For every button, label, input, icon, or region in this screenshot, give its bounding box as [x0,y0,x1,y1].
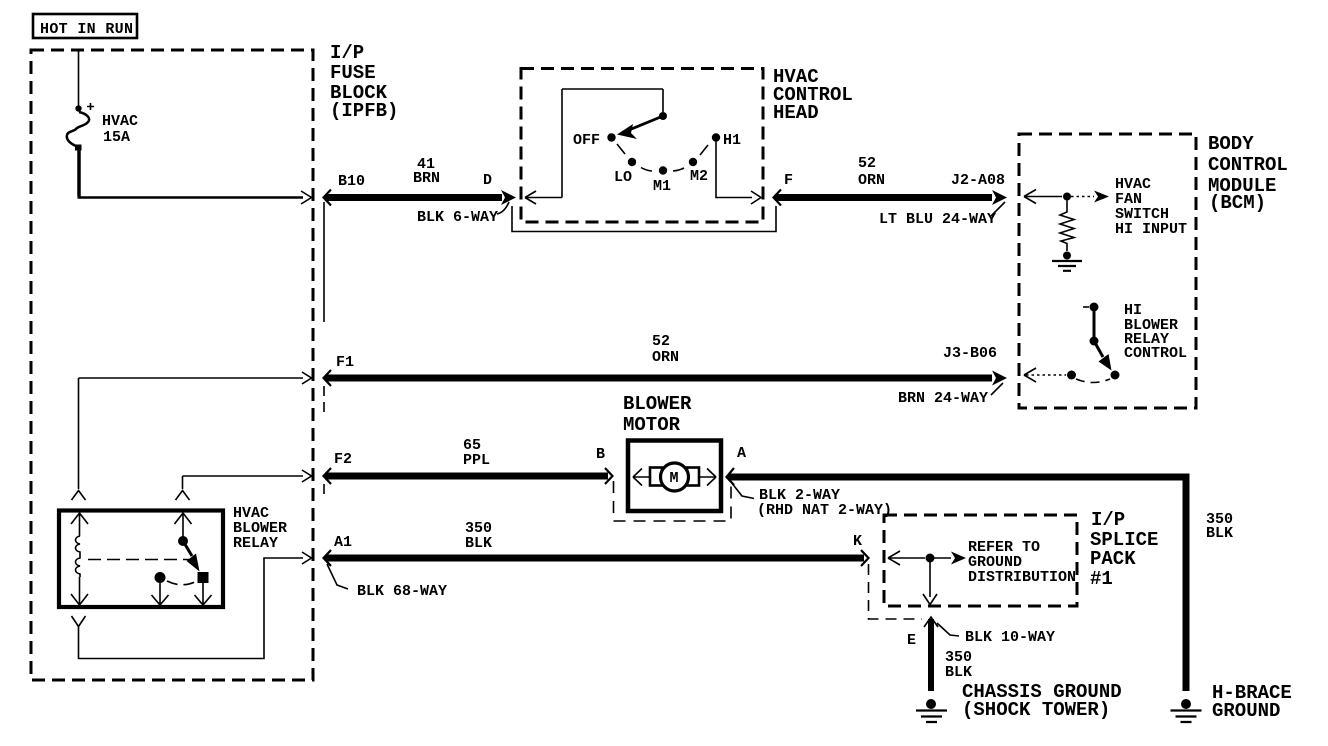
svg-text:MOTOR: MOTOR [623,414,681,436]
node M2 [689,158,697,166]
chevron above relay switch [176,491,190,501]
plus sign [87,103,94,110]
label 52 ORN [858,155,885,189]
control head internal wire from D [525,89,663,204]
HVAC control head dashed box [521,69,763,223]
10-way connector dashed loop [869,564,923,619]
node splice junction [926,554,935,563]
HOT IN RUN box [33,14,137,38]
svg-text:(IPFB): (IPFB) [330,100,398,122]
svg-text:RELAY: RELAY [233,535,278,552]
svg-text:52: 52 [858,155,876,172]
relay coil [76,536,81,577]
arrow into B10 [301,191,312,204]
label REFER TO GROUND DISTRIBUTION [968,539,1076,586]
wire E chassis ground 350 BLK [924,617,938,691]
svg-text:(RHD NAT 2-WAY): (RHD NAT 2-WAY) [757,502,892,519]
svg-text:A: A [737,445,746,462]
BCM fan switch input arrow left [1024,190,1062,204]
wire A1 to K 350 BLK [324,550,869,566]
svg-text:J2-A08: J2-A08 [951,172,1005,189]
node BCM switch contact [1111,371,1120,380]
I/P fuse block IPFB dashed box [31,50,313,680]
wire F2 to blower motor B 65 PPL [324,468,613,484]
fuse bottom blob [75,145,82,151]
label 65 PPL [463,437,490,469]
wire F2 terminal to relay switch inside IPFB [183,470,312,489]
svg-text:HOT IN RUN: HOT IN RUN [40,21,133,38]
svg-text:BLK: BLK [465,535,492,552]
svg-text:M2: M2 [690,168,708,185]
svg-text:F2: F2 [334,451,352,468]
relay coil top arrow [71,513,88,536]
wire from top border to fuse [78,50,80,106]
svg-text:BLK: BLK [1206,525,1233,542]
label 350 BLK bottom [945,649,972,681]
ground in BCM [1052,261,1082,271]
svg-text:HI INPUT: HI INPUT [1115,221,1187,238]
motor 2-way connector dashed loop [614,481,732,521]
wire fuse to B10 terminal [77,149,81,197]
chevron below relay coil [72,616,86,627]
motor brush right [687,468,699,486]
fuse HVAC 15A symbol [67,112,89,147]
svg-text:I/P: I/P [330,42,364,64]
chassis ground symbol [916,699,947,722]
node BCM switch pivot [1090,337,1099,346]
switch blade to OFF [629,116,663,130]
wire relay to A1 terminal [79,552,312,659]
body control module BCM dashed box [1019,134,1196,408]
label I/P FUSE BLOCK (IPFB) [330,42,398,122]
wire F1 to J3-B06 52 ORN [324,370,1008,386]
node LO [628,158,636,166]
label HVAC 15A [102,113,138,146]
svg-text:M: M [670,470,679,487]
svg-text:52: 52 [652,333,670,350]
svg-text:BLK: BLK [945,664,972,681]
H-brace ground symbol [1171,699,1202,722]
svg-text:H1: H1 [723,132,741,149]
dashed arcs between switch positions [617,144,625,154]
svg-text:HVAC: HVAC [102,113,138,130]
svg-text:BLK 68-WAY: BLK 68-WAY [357,583,447,600]
relay dashed arc [167,581,197,585]
node relay fixed contact [155,572,166,583]
label HVAC FAN SWITCH HI INPUT [1115,176,1187,238]
relay contact bottom arrows [152,583,212,605]
svg-text:LT BLU 24-WAY: LT BLU 24-WAY [879,211,996,228]
label HI BLOWER RELAY CONTROL [1124,302,1187,362]
BCM switch blade arrow [1094,341,1103,357]
connector loop below control head D to F [512,206,776,232]
label HVAC BLOWER RELAY [233,505,287,552]
svg-text:PACK: PACK [1090,548,1136,570]
node relay moving contact [198,572,209,583]
svg-text:LO: LO [614,169,632,186]
label I/P SPLICE PACK #1 [1090,509,1158,590]
wire F to J2-A08 52 ORN [774,190,1008,206]
splice down arrow [923,562,937,605]
label BLK 68-WAY with leader [327,564,447,600]
svg-text:BRN: BRN [413,170,440,187]
relay coil bottom arrow [71,577,88,605]
svg-text:FUSE: FUSE [330,62,376,84]
label BLOWER MOTOR [623,393,692,436]
svg-text:B10: B10 [338,173,365,190]
node BCM input junction [1063,193,1071,201]
svg-text:CONTROL: CONTROL [1124,345,1187,362]
relay switch top arrow [175,513,192,537]
svg-text:A1: A1 [334,534,352,551]
svg-text:DISTRIBUTION: DISTRIBUTION [968,569,1076,586]
label BRN 24-WAY with leader [898,383,1003,407]
svg-text:15A: 15A [103,129,130,146]
svg-text:(SHOCK TOWER): (SHOCK TOWER) [962,699,1110,721]
svg-text:PPL: PPL [463,452,490,469]
svg-text:ORN: ORN [858,172,885,189]
chevron above relay coil [72,491,86,501]
svg-text:CONTROL: CONTROL [1208,154,1288,176]
svg-text:OFF: OFF [573,132,600,149]
arrow to HVAC FAN SWITCH HI INPUT label [1071,191,1109,203]
svg-text:M1: M1 [653,178,671,195]
svg-text:I/P: I/P [1091,509,1125,531]
label BLK 2-WAY (RHD NAT 2-WAY) with leader [731,482,892,519]
wire B10-D 41 BRN [324,190,517,206]
node OFF [607,133,615,141]
node H1 [712,133,720,141]
label BLK 10-WAY with leader [937,623,1055,646]
svg-text:ORN: ORN [652,349,679,366]
node fuse top dot [75,105,81,111]
svg-text:J3-B06: J3-B06 [943,345,997,362]
svg-text:F1: F1 [336,354,354,371]
label HVAC CONTROL HEAD [773,66,853,124]
svg-text:(BCM): (BCM) [1209,192,1266,214]
label 52 ORN row2 [652,333,679,366]
svg-text:BRN 24-WAY: BRN 24-WAY [898,390,988,407]
blower motor box [628,441,721,512]
svg-text:K: K [853,533,862,550]
node relay pivot [178,536,188,546]
label 350 BLK [465,520,492,552]
node switch pivot [659,112,667,120]
motor internal arrows and line [633,469,716,486]
node BCM fixed contact [1067,371,1076,380]
svg-text:HEAD: HEAD [773,102,819,124]
wire F1 terminal to relay coil inside IPFB [79,372,312,489]
dashed arc BCM switch [1076,379,1110,383]
hvac blower relay box [59,511,223,608]
svg-text:BODY: BODY [1208,133,1254,155]
arrow to REFER TO GROUND DISTRIBUTION [934,552,966,565]
BCM switch vertical [1093,307,1096,341]
label 350 BLK right [1206,511,1233,542]
svg-text:BLOWER: BLOWER [623,393,692,415]
svg-text:E: E [907,632,916,649]
I/P splice pack dashed box [884,515,1077,606]
svg-text:BLK 10-WAY: BLK 10-WAY [965,629,1055,646]
node M1 [659,166,667,174]
svg-text:D: D [483,172,492,189]
label BLK 6-WAY with leader [417,202,509,226]
wire A to H-brace ground 350 BLK [727,468,1187,691]
connector line below B10 [323,202,325,322]
label H-BRACE GROUND [1212,682,1292,722]
relay dashed link [88,559,190,561]
label BODY CONTROL MODULE (BCM) [1208,133,1288,214]
BCM hi blower relay control top node [1090,303,1099,312]
resistor in BCM [1060,201,1074,252]
motor circle M [661,463,689,491]
svg-text:F: F [784,172,793,189]
label 41 BRN [413,156,440,187]
svg-text:B: B [596,446,605,463]
label CHASSIS GROUND (SHOCK TOWER) [962,681,1122,721]
relay blade arrow [183,541,192,556]
wire H1 to F terminal [716,141,761,204]
svg-text:BLK 6-WAY: BLK 6-WAY [417,209,498,226]
svg-text:GROUND: GROUND [1212,700,1280,722]
node resistor bottom dot [1063,252,1071,260]
BCM J3 arrow left [1024,368,1036,382]
svg-text:#1: #1 [1090,568,1113,590]
splice arrow left [888,551,925,565]
label LT BLU 24-WAY with leader [879,202,1005,228]
motor brush left [650,468,662,486]
